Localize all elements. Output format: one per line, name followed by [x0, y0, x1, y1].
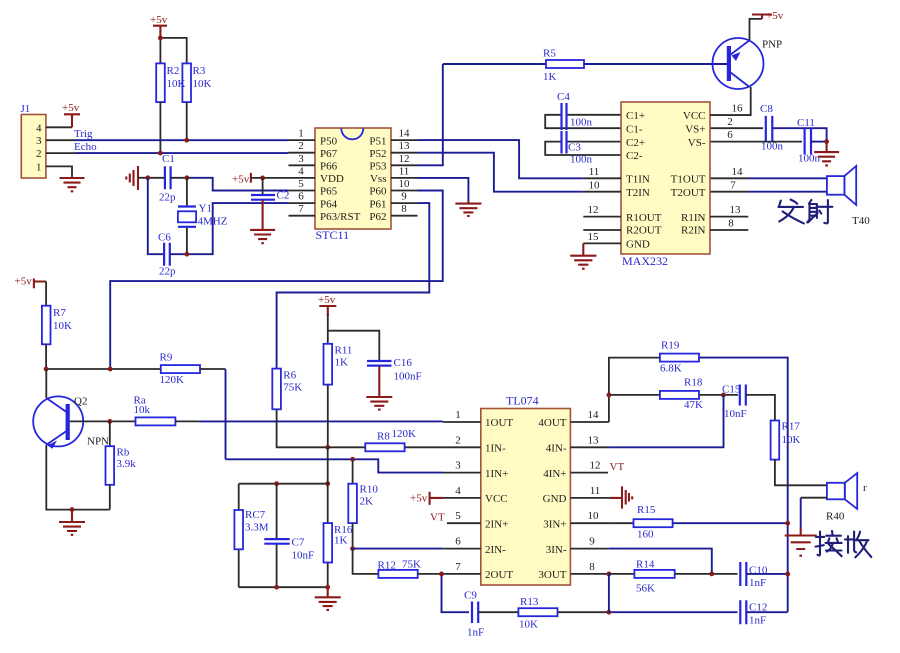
svg-text:C1+: C1+	[626, 110, 645, 122]
svg-text:4: 4	[455, 485, 461, 497]
svg-text:C2+: C2+	[626, 137, 645, 149]
capacitor C9	[464, 590, 484, 639]
label transmit 发射	[778, 200, 832, 224]
ground (C2)	[250, 230, 275, 243]
svg-text:Rb: Rb	[117, 447, 130, 459]
svg-text:6: 6	[727, 129, 733, 141]
wire Q2 base to node	[70, 420, 136, 422]
junction 2OUT/R12/C9	[439, 572, 444, 577]
wire y459 row (R9 to R10/pin3)	[226, 459, 443, 472]
svg-text:10K: 10K	[519, 619, 538, 631]
power +5v (VDD)	[232, 173, 251, 185]
connector J1	[21, 103, 46, 178]
ground (MAX232 GND)	[570, 256, 596, 269]
svg-text:2: 2	[455, 434, 461, 446]
svg-text:13: 13	[588, 434, 600, 446]
resistor R18	[660, 377, 703, 412]
svg-text:1K: 1K	[335, 357, 349, 369]
wire +5v to R11 and C16	[328, 314, 380, 361]
svg-text:75K: 75K	[402, 559, 421, 571]
wire 3OUT to R14	[609, 573, 635, 575]
wire P61 pin9 down-left to R6 top	[277, 203, 430, 369]
svg-text:9: 9	[589, 536, 595, 548]
svg-text:VDD: VDD	[320, 173, 344, 185]
svg-text:100nF: 100nF	[394, 371, 422, 383]
capacitor C6	[158, 232, 176, 278]
svg-text:5: 5	[455, 510, 461, 522]
svg-text:Q2: Q2	[74, 396, 87, 408]
ground (R16 rail)	[315, 587, 341, 610]
capacitor C1	[159, 153, 176, 204]
svg-text:C8: C8	[760, 103, 773, 115]
svg-text:12: 12	[588, 204, 599, 216]
svg-text:STC11: STC11	[316, 228, 350, 242]
svg-text:GND: GND	[543, 493, 567, 505]
junction VDD/C2	[260, 176, 265, 181]
svg-text:2: 2	[727, 116, 733, 128]
wire R9 right down to y459 row	[200, 368, 226, 370]
svg-text:10nF: 10nF	[292, 550, 315, 562]
svg-text:75K: 75K	[283, 382, 302, 394]
svg-text:MAX232: MAX232	[622, 254, 668, 268]
wire P51 pin14 to MAX232 T1IN	[418, 140, 584, 178]
resistor RC7	[234, 484, 268, 588]
ground earth (crystal)	[126, 166, 138, 190]
junction C7 bottom	[274, 585, 279, 590]
svg-text:6.8K: 6.8K	[660, 363, 682, 375]
svg-text:10K: 10K	[782, 434, 801, 446]
svg-text:C15: C15	[722, 384, 741, 396]
wire J1 pin1 stub	[46, 166, 72, 178]
svg-text:14: 14	[732, 166, 744, 178]
svg-text:14: 14	[588, 409, 600, 421]
wire R18 right to C15 node	[699, 394, 738, 396]
junction rail/ground	[70, 507, 75, 512]
svg-text:VT: VT	[430, 512, 445, 524]
ground (J1)	[60, 178, 85, 191]
svg-text:1IN-: 1IN-	[485, 443, 506, 455]
junction C8/C11/ground	[824, 139, 829, 144]
resistor R12	[378, 559, 422, 578]
svg-text:10: 10	[588, 510, 600, 522]
svg-text:R11: R11	[335, 345, 353, 357]
svg-text:Y1: Y1	[199, 203, 212, 215]
svg-text:10: 10	[399, 178, 411, 190]
junction 3OUT node	[607, 572, 612, 577]
wire C9 to R13	[478, 611, 518, 613]
wire T2OUT to speaker	[710, 191, 748, 193]
wire P60 pin10 down-left to Q2 base node	[110, 191, 443, 370]
svg-text:+5v: +5v	[15, 276, 33, 288]
capacitor C7	[264, 484, 314, 588]
wire R6 bottom to R8 row	[277, 409, 328, 447]
svg-text:R5: R5	[543, 48, 556, 60]
svg-text:3IN+: 3IN+	[543, 518, 566, 530]
svg-text:C2-: C2-	[626, 150, 643, 162]
svg-text:P51: P51	[369, 135, 386, 147]
resistor R3	[182, 63, 211, 102]
transistor Q1 PNP	[713, 38, 783, 89]
svg-text:1OUT: 1OUT	[485, 417, 513, 429]
svg-text:2OUT: 2OUT	[485, 569, 513, 581]
wire 2OUT node down to C9 row	[442, 574, 470, 612]
capacitor C10	[740, 562, 768, 589]
label receive 接收	[816, 531, 872, 557]
wire R10 node down to R12	[353, 549, 379, 574]
svg-text:C4: C4	[557, 91, 570, 103]
svg-text:T1IN: T1IN	[626, 174, 650, 186]
ground (C8/C11)	[814, 142, 839, 166]
svg-text:P65: P65	[320, 186, 338, 198]
svg-text:RC7: RC7	[245, 509, 266, 521]
svg-text:R40: R40	[826, 511, 845, 523]
junction C6/Y1	[185, 252, 190, 257]
power +5v (TL074 VCC)	[410, 492, 443, 505]
svg-text:8: 8	[401, 203, 407, 215]
svg-text:11: 11	[399, 165, 410, 177]
svg-text:1K: 1K	[543, 71, 557, 83]
svg-text:3OUT: 3OUT	[538, 569, 566, 581]
wire R14 right to C10	[675, 573, 738, 575]
svg-text:100n: 100n	[798, 153, 821, 165]
ground earth (TL074 GND pin11)	[610, 486, 632, 508]
svg-text:3.9k: 3.9k	[117, 458, 137, 470]
svg-text:C1-: C1-	[626, 123, 643, 135]
svg-text:R3: R3	[193, 65, 206, 77]
TL074 right stubs 14-8	[570, 409, 610, 574]
IC TL074	[481, 394, 571, 586]
junction base/Ra/Rb	[107, 419, 112, 424]
svg-text:P50: P50	[320, 135, 338, 147]
svg-text:7: 7	[298, 203, 304, 215]
junction R6/R11/R8	[325, 445, 330, 450]
svg-text:T2IN: T2IN	[626, 187, 650, 199]
power +5v (PNP emitter)	[750, 10, 784, 40]
svg-text:7: 7	[730, 179, 736, 191]
resistor R2	[156, 63, 185, 102]
wire 4OUT pin14 up to R19/R18	[609, 358, 660, 422]
svg-text:P62: P62	[369, 211, 386, 223]
wire +5v to VDD pin4	[251, 177, 289, 179]
wire Echo bus J1.2 to STC11 P67	[46, 152, 75, 154]
TL074 left stubs 1-7	[443, 409, 481, 574]
svg-text:2K: 2K	[360, 496, 374, 508]
svg-text:10K: 10K	[53, 320, 72, 332]
capacitor C16	[367, 357, 422, 383]
svg-text:3.3M: 3.3M	[245, 522, 269, 534]
wire R19 right to long vertical	[699, 358, 788, 612]
resistor R19	[660, 340, 699, 375]
svg-text:P63/RST: P63/RST	[320, 211, 361, 223]
svg-text:P53: P53	[369, 161, 387, 173]
svg-text:1: 1	[455, 409, 461, 421]
svg-text:1K: 1K	[334, 535, 348, 547]
junction R14/C10/pin9	[709, 572, 714, 577]
svg-text:VS+: VS+	[685, 123, 705, 135]
svg-text:6: 6	[455, 536, 461, 548]
wire C6 right to corner up to P64	[170, 203, 289, 254]
resistor R15	[634, 504, 673, 541]
svg-text:4IN-: 4IN-	[546, 443, 567, 455]
resistor R7	[42, 306, 72, 345]
svg-text:12: 12	[399, 153, 410, 165]
svg-text:VS-: VS-	[688, 137, 706, 149]
wire R17 bottom to speaker R40	[775, 460, 827, 486]
svg-text:R14: R14	[636, 559, 655, 571]
wire C6 loop left vertical	[148, 178, 163, 254]
ground (Q2 rail)	[59, 510, 85, 535]
svg-text:C2: C2	[277, 190, 290, 202]
svg-text:13: 13	[730, 204, 742, 216]
resistor R8	[328, 428, 443, 451]
resistor Ra	[134, 395, 176, 426]
ground (R40)	[785, 528, 817, 556]
junction +5v/R2/R3	[158, 36, 163, 41]
wire P52 pin13 to MAX232 T2IN	[418, 153, 584, 192]
ground (Vss)	[455, 201, 481, 216]
wire C16 to ground	[378, 366, 380, 397]
power +5v (R11)	[318, 294, 336, 316]
wire J1 pin4 stub	[46, 126, 72, 128]
svg-text:+5v: +5v	[410, 493, 428, 505]
svg-text:100n: 100n	[570, 117, 593, 129]
wire R12 right to 2OUT node	[418, 573, 442, 575]
svg-text:R10: R10	[360, 484, 379, 496]
svg-text:C16: C16	[394, 357, 413, 369]
capacitor C11 (VS-)	[710, 117, 827, 165]
transistor Q2 NPN	[33, 396, 109, 449]
resistor Rb	[106, 421, 137, 484]
svg-text:Echo: Echo	[74, 141, 97, 153]
svg-text:P66: P66	[320, 161, 338, 173]
junction C7 top	[274, 481, 279, 486]
svg-text:R6: R6	[283, 370, 296, 382]
power +5v (J1)	[62, 102, 80, 127]
capacitor C2	[251, 178, 289, 202]
svg-text:+5v: +5v	[766, 10, 784, 22]
svg-text:Vss: Vss	[370, 173, 387, 185]
svg-text:C9: C9	[464, 590, 477, 602]
junction R13/C12/3OUT vertical	[607, 610, 612, 615]
svg-text:22p: 22p	[159, 192, 176, 204]
capacitor C15	[722, 384, 747, 421]
svg-text:T1OUT: T1OUT	[671, 174, 706, 186]
junction R16 top	[325, 481, 330, 486]
wire Vss pin11 to ground	[418, 178, 469, 201]
wire PNP collector to MAX232 VCC pin16	[710, 87, 751, 115]
svg-text:R15: R15	[637, 504, 656, 516]
IC STC11	[315, 128, 391, 242]
svg-text:R13: R13	[520, 596, 539, 608]
wire R2/R3 top link	[160, 38, 186, 64]
wire pin6 row	[353, 548, 443, 550]
svg-text:C3: C3	[568, 142, 581, 154]
svg-text:T2OUT: T2OUT	[671, 187, 706, 199]
svg-text:8: 8	[728, 218, 734, 230]
junction P60 wire/R9 row	[108, 367, 113, 372]
resistor R11	[324, 344, 353, 385]
svg-text:R2: R2	[167, 65, 180, 77]
svg-text:6: 6	[298, 191, 304, 203]
junction R10 top	[350, 457, 355, 462]
resistor R16	[324, 447, 353, 587]
junction R18/C15/pin13	[721, 393, 726, 398]
svg-text:22p: 22p	[159, 266, 176, 278]
svg-text:+5v: +5v	[318, 294, 336, 306]
svg-text:TL074: TL074	[506, 394, 539, 408]
capacitor C12	[740, 600, 767, 626]
MAX232 R2OUT stub	[583, 229, 621, 231]
svg-text:1: 1	[298, 128, 304, 140]
resistor R14	[634, 559, 674, 595]
junction C10/vertical	[785, 572, 790, 577]
wire +5v to R7	[45, 282, 47, 306]
resistor R6	[272, 369, 302, 410]
svg-text:R2IN: R2IN	[681, 224, 706, 236]
MAX232 left stubs T1IN/T2IN numbers	[583, 166, 621, 192]
speaker T40	[827, 166, 870, 227]
svg-text:1IN+: 1IN+	[485, 468, 508, 480]
svg-text:16: 16	[732, 103, 744, 115]
junction R3-Trig	[184, 138, 189, 143]
resistor R13	[518, 596, 557, 631]
svg-text:7: 7	[455, 561, 461, 573]
svg-text:120K: 120K	[392, 428, 417, 440]
svg-text:160: 160	[637, 529, 654, 541]
svg-text:T40: T40	[852, 215, 870, 227]
junction R15/vertical	[785, 521, 790, 526]
svg-text:2: 2	[36, 148, 42, 160]
resistor R5	[443, 48, 727, 84]
STC11 right pin stubs 14-8	[391, 128, 418, 216]
wire top rail RC7/C7/R16	[239, 483, 328, 485]
wire 3IN- pin9 to C10 node	[609, 549, 712, 574]
svg-text:12: 12	[590, 460, 601, 472]
svg-text:Trig: Trig	[74, 128, 93, 140]
junction R10/pin6	[350, 546, 355, 551]
ground (C16)	[366, 397, 392, 410]
wire R10 bottom to pin6 row	[352, 523, 354, 549]
svg-text:R12: R12	[378, 560, 396, 572]
svg-text:C6: C6	[158, 232, 171, 244]
svg-text:+5v: +5v	[232, 173, 250, 185]
svg-text:+5v: +5v	[150, 14, 168, 26]
resistor R17	[771, 421, 801, 460]
svg-text:11: 11	[589, 166, 600, 178]
power +5v (R7)	[15, 276, 47, 289]
svg-text:P64: P64	[320, 198, 338, 210]
svg-text:56K: 56K	[636, 583, 655, 595]
wire R15 right to long vertical	[673, 522, 788, 524]
resistor R10	[348, 459, 378, 523]
svg-text:100n: 100n	[570, 154, 593, 166]
wire pin13 up to C15 node	[609, 395, 724, 447]
wire 3IN+ pin10 through R15	[609, 522, 634, 524]
svg-text:R8: R8	[377, 431, 390, 443]
svg-text:C7: C7	[292, 537, 305, 549]
crystal Y1	[178, 203, 228, 228]
wire C15 to R17	[746, 395, 775, 421]
svg-text:15: 15	[588, 231, 600, 243]
svg-text:R18: R18	[684, 377, 703, 389]
svg-text:R9: R9	[160, 352, 173, 364]
MAX232 right pin numbers	[710, 103, 751, 230]
svg-text:+5v: +5v	[62, 102, 80, 114]
svg-text:2IN-: 2IN-	[485, 544, 506, 556]
wire bottom rail	[239, 586, 328, 588]
svg-text:10: 10	[589, 179, 601, 191]
svg-text:r: r	[863, 482, 867, 494]
wire Q2 emitter down and rail	[46, 445, 110, 510]
svg-text:2IN+: 2IN+	[485, 518, 508, 530]
wire node row y369	[46, 368, 161, 370]
svg-text:5: 5	[298, 178, 304, 190]
svg-text:R19: R19	[661, 340, 680, 352]
svg-text:9: 9	[401, 191, 407, 203]
wire R2 bottom to Echo	[159, 102, 161, 153]
junction C1 left	[145, 175, 150, 180]
wire Y1 branch vertical	[186, 178, 188, 254]
svg-text:4IN+: 4IN+	[543, 468, 566, 480]
svg-text:120K: 120K	[160, 374, 185, 386]
wire R3 bottom to Trig	[186, 102, 188, 140]
svg-text:VT: VT	[610, 461, 625, 473]
svg-text:4: 4	[298, 165, 304, 177]
svg-text:VCC: VCC	[485, 493, 508, 505]
svg-text:R1IN: R1IN	[681, 212, 706, 224]
svg-text:J1: J1	[21, 103, 31, 115]
svg-text:10k: 10k	[134, 404, 151, 416]
svg-text:R7: R7	[53, 307, 66, 319]
speaker R40	[826, 473, 867, 522]
wire R11 bottom to R8 node	[327, 385, 329, 448]
svg-text:VCC: VCC	[683, 110, 706, 122]
svg-text:3: 3	[455, 460, 461, 472]
svg-text:4: 4	[36, 122, 42, 134]
wire C2 to ground	[262, 200, 264, 230]
wire P53 pin12 up to R5	[418, 64, 443, 165]
svg-text:P61: P61	[369, 198, 386, 210]
svg-text:1nF: 1nF	[749, 577, 766, 589]
svg-text:2: 2	[298, 140, 304, 152]
MAX232 R1OUT pin12 stub	[583, 204, 621, 216]
IC MAX232	[621, 102, 710, 268]
MAX232 GND pin15 stub to ground	[583, 231, 621, 256]
svg-text:10K: 10K	[193, 78, 212, 90]
svg-text:1nF: 1nF	[749, 615, 766, 627]
resistor R9	[160, 352, 201, 387]
svg-text:47K: 47K	[684, 399, 703, 411]
svg-text:P67: P67	[320, 148, 338, 160]
wire C10 right to vertical	[746, 573, 787, 575]
wire Q2 collector up	[45, 369, 47, 398]
junction R18 branch	[607, 393, 612, 398]
svg-text:13: 13	[399, 140, 411, 152]
svg-text:14: 14	[399, 128, 411, 140]
STC11 left pin stubs 1-7	[289, 128, 316, 216]
svg-text:C1: C1	[162, 153, 175, 165]
svg-text:P60: P60	[369, 186, 387, 198]
wire C1 right to corner, to P65	[171, 177, 190, 179]
junction C1/Y1	[185, 175, 190, 180]
wire speaker R40 bottom to ground	[801, 497, 827, 499]
junction R2-Echo	[158, 151, 163, 156]
power +5v (R2/R3 pull-ups)	[150, 14, 168, 38]
capacitor C8 (VS+)	[710, 103, 827, 153]
svg-text:R2OUT: R2OUT	[626, 224, 662, 236]
svg-text:8: 8	[589, 561, 595, 573]
wire R7 bottom to node	[45, 344, 47, 369]
